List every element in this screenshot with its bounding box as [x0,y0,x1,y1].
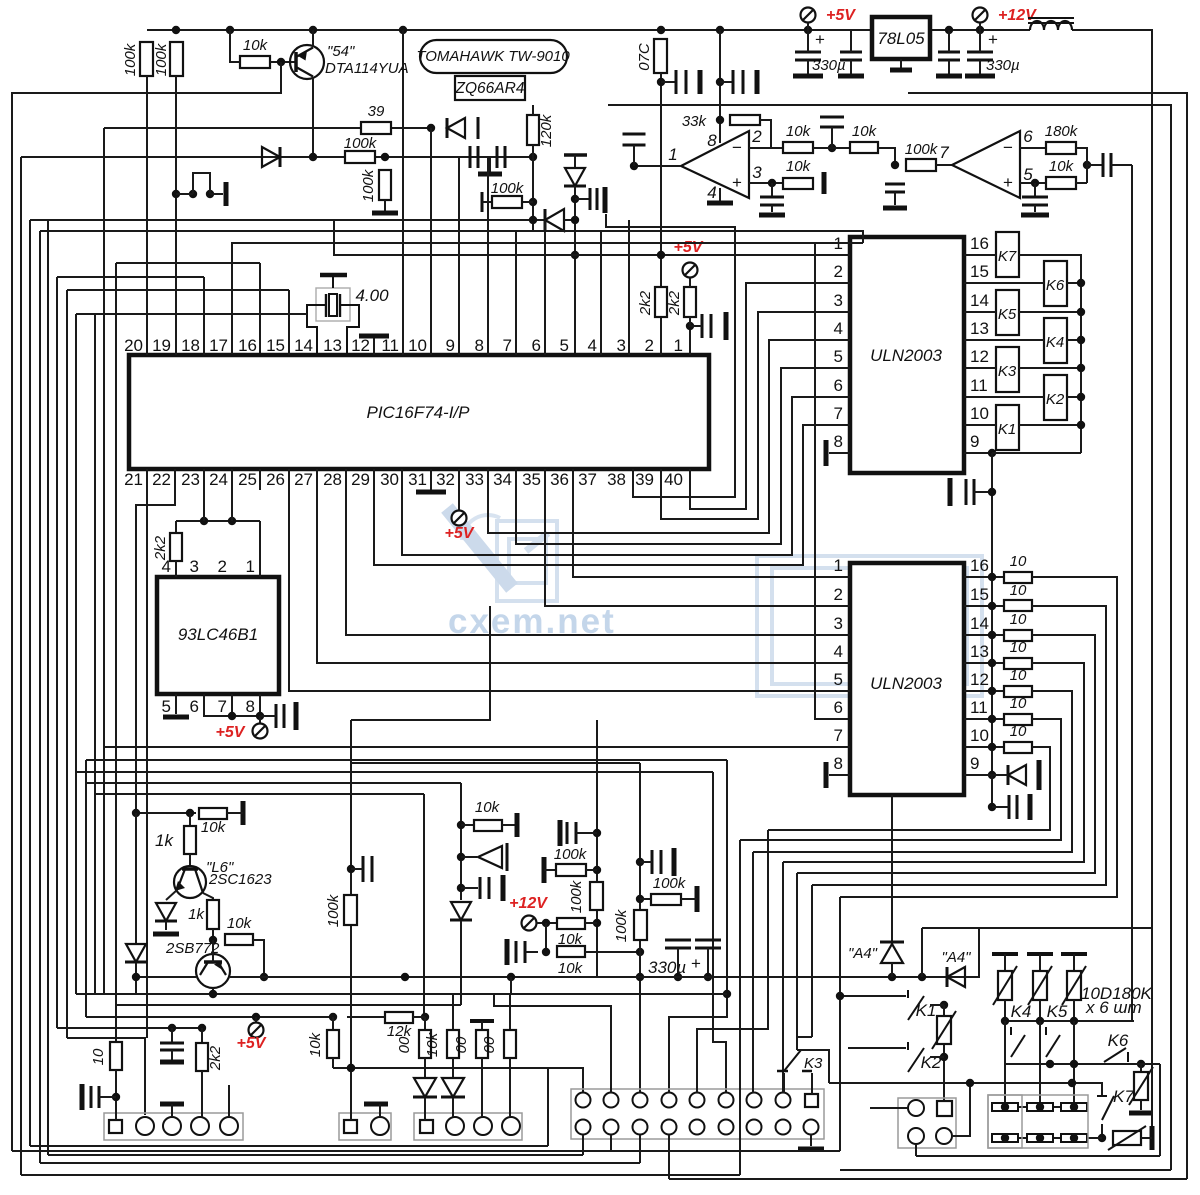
wire y763 feed [351,762,640,764]
junction [804,26,812,34]
wire 12k w2 [413,1016,425,1018]
wire y105 full [608,105,1171,1170]
wire var-bar [1141,1137,1152,1139]
relay coil K2 [1044,375,1067,420]
wire K3 left stub [783,1073,785,1093]
junction [674,973,682,981]
svg-text:10k: 10k [201,819,227,836]
diode [442,1078,464,1097]
junction [716,26,724,34]
ground [672,848,677,876]
junction [198,1024,206,1032]
junction [226,26,234,34]
wire x1152 col [1151,928,1153,1126]
wire pic24 dn [231,469,233,521]
svg-text:8: 8 [834,432,843,451]
resistor [344,895,357,925]
resistor [327,1030,339,1058]
svg-text:1k: 1k [155,831,174,850]
svg-text:K7: K7 [998,248,1017,265]
wire x922 riser [921,928,923,977]
wire p8 stub [259,694,261,716]
wire 330u down [807,30,809,52]
ground [160,1060,184,1065]
wire y521 rail [176,520,260,522]
resistor [556,864,586,876]
wire f611 [494,994,611,1093]
ground [163,715,189,720]
svg-text:10: 10 [1010,582,1027,599]
contact pad [992,1103,1018,1111]
svg-text:6: 6 [834,698,843,717]
svg-text:10: 10 [1010,723,1027,740]
wire R10 fan [768,747,1050,830]
wire cap to x1132 [1111,164,1132,166]
junction [686,322,694,330]
wire gnd stub [171,1104,173,1117]
svg-text:8: 8 [475,336,484,355]
resistor [447,1030,459,1058]
ground [1021,213,1049,218]
svg-text:1: 1 [834,556,843,575]
junction [888,973,896,981]
junction [529,153,537,161]
svg-text:27: 27 [294,470,313,489]
wire x48 up [47,220,49,1155]
svg-text:3: 3 [834,614,843,633]
junction [723,990,731,998]
svg-text:5: 5 [560,336,569,355]
capacitor [652,850,661,874]
connector pin [804,1120,819,1135]
connector pin [576,1093,591,1108]
wire y1156r [916,1155,1160,1157]
wire rail to 78L05 [851,29,872,31]
wire c dn2 [948,60,950,75]
svg-text:100k: 100k [568,879,585,913]
svg-text:11: 11 [970,698,988,717]
wire cap dn2 [850,60,852,75]
diode vertical [564,153,587,157]
ground [948,478,953,506]
wire x840 drop [839,897,841,1151]
wire U3 pin2 net [690,283,850,509]
wire pin20 stub2 [146,336,148,355]
svg-text:78L05: 78L05 [877,29,925,48]
wire pin1 dot wire [690,317,702,326]
svg-text:100k: 100k [122,42,139,76]
svg-text:34: 34 [493,470,512,489]
wire x136 col [135,813,137,945]
wire 351 to sq [350,1068,352,1120]
svg-text:+5V: +5V [237,1035,267,1052]
svg-text:+: + [691,954,701,973]
capacitor [938,52,960,60]
svg-text:00: 00 [396,1036,413,1053]
svg-text:33: 33 [465,470,484,489]
wire r453 top [452,994,454,1030]
wire 157 net [21,156,533,158]
wire x424 down [423,794,425,1017]
svg-text:23: 23 [181,470,200,489]
wire p7 stub [231,694,233,716]
varistor 10D180K [992,952,1018,956]
wire cap to 992 [974,491,992,493]
resistor [199,808,227,819]
wire y928 line [922,927,1152,929]
resistor [110,1042,122,1070]
connector pin [776,1093,791,1108]
connector pin [576,1120,591,1135]
junction [542,919,550,927]
wire pic25 stub [259,469,261,490]
wire r510 top [509,994,511,1030]
svg-text:"A4": "A4" [848,945,878,962]
svg-text:10: 10 [408,336,427,355]
svg-text:100k: 100k [344,135,378,152]
resistor [783,142,813,153]
diode [451,902,471,920]
wire pin3 cap [771,183,773,197]
diode [262,147,280,167]
junction [593,866,601,874]
ground [824,762,829,788]
connector pin [220,1117,238,1135]
svg-text:−: − [732,138,742,157]
resistor [684,287,696,317]
resistor [1004,572,1032,583]
svg-text:2: 2 [834,585,843,604]
svg-text:+: + [732,173,742,192]
svg-text:6: 6 [1023,127,1033,146]
capacitor [1022,197,1048,205]
junction [636,858,644,866]
relay coil K5 [996,290,1019,335]
junction [200,517,208,525]
wire dv [574,155,576,168]
diode [565,168,585,186]
contact pad [1027,1134,1053,1142]
junction [189,190,197,198]
ground [1129,1111,1153,1116]
connector pin [719,1120,734,1135]
svg-text:2k2: 2k2 [152,535,169,561]
junction [228,517,236,525]
wire p14-K5 [964,311,996,313]
svg-text:100k: 100k [554,846,588,863]
wire y977 l2 [230,976,405,978]
resistor [379,170,391,200]
wire 10k right [1076,182,1087,184]
wire r10 bot [115,1070,117,1120]
junction [252,1013,260,1021]
capacitor [623,134,646,145]
wire cap172 top [171,1028,173,1043]
junction [1036,1103,1044,1111]
wire pin20 line [146,76,148,336]
junction [988,573,996,581]
subtitle box [455,76,525,100]
wire pin9 v [458,157,460,355]
junction [172,26,180,34]
wire x740 dn [739,840,741,1175]
svg-text:30: 30 [380,470,399,489]
wire x511 riser [510,977,512,994]
resistor [655,287,667,317]
resistor [527,115,539,145]
wire x597 col [596,720,598,977]
wire y1163 [40,1162,640,1164]
svg-text:x 6 шт: x 6 шт [1085,998,1142,1017]
wire bandB y783 [86,782,461,784]
junction [1046,1060,1054,1068]
wire y1038w [67,1038,145,1115]
wire U4 pin7 net [104,746,850,748]
wire p16 to R [964,576,1004,578]
svg-text:9: 9 [970,754,979,773]
wire pic23 dn [203,469,205,521]
svg-text:93LC46B1: 93LC46B1 [178,625,258,644]
wire 461-10k [461,824,474,826]
svg-text:20: 20 [124,336,143,355]
svg-text:4: 4 [588,336,597,355]
wire x351 col [350,720,352,1068]
junction [457,821,465,829]
resistor [196,1043,208,1071]
wire x640 col [639,763,641,1093]
resistor [170,533,182,561]
wire y277 pin18 [57,276,204,278]
capacitor [363,856,372,882]
svg-text:K5: K5 [1047,1002,1068,1021]
svg-text:14: 14 [970,291,989,310]
wire ee p1 [259,521,261,577]
wire pad row1 wire [1005,1106,1074,1108]
svg-text:12: 12 [970,347,989,366]
wire y231 line [40,231,863,243]
ground [515,813,520,837]
junction [112,1093,120,1101]
wire pin5 gnd [1034,205,1036,212]
ground [698,70,703,94]
wire y720 wire [351,606,490,720]
svg-text:12: 12 [351,336,370,355]
svg-text:ULN2003: ULN2003 [870,674,942,693]
transistor Q2 "L6" 2SC1623 [174,866,206,898]
title oval [420,40,567,73]
wire pin down [915,1144,917,1156]
resistor [590,882,603,910]
wire K45 vert2 [1039,1021,1041,1107]
wire R15 fan [812,606,1106,885]
svg-text:13: 13 [970,642,989,661]
junction [988,631,996,639]
svg-text:10: 10 [1010,611,1027,628]
capacitor [567,822,576,844]
wire x405 col [402,30,404,355]
wire b640 [639,1135,641,1163]
wire K3 common [797,1050,829,1083]
wire cap mid gnd [487,157,490,172]
svg-text:2SC1623: 2SC1623 [208,871,272,888]
junction [1036,1134,1044,1142]
junction [529,216,537,224]
wire 10k-597b [585,922,597,924]
ground [364,1102,388,1107]
wire pin16 drop2 [259,263,261,355]
wire p9 rail [992,452,1081,454]
resistor [504,1030,516,1058]
ground [1150,1126,1155,1150]
capacitor [91,1086,99,1108]
junction [716,116,724,124]
capacitor [702,314,711,338]
junction [918,973,926,981]
junction [260,973,268,981]
junction [421,1013,429,1021]
wire pin1cap stub [633,145,635,166]
wire K4 right [1067,339,1081,341]
wire 78L05 out rail [930,29,1030,31]
resistor [651,894,681,905]
resistor [1004,658,1032,669]
wire Q1 collector [312,77,314,157]
wire p10-K1 [964,424,996,426]
svg-text:5: 5 [834,347,843,366]
junction [704,973,712,981]
contact pad [992,1134,1018,1142]
wire cap708 d [707,948,709,977]
svg-text:21: 21 [124,470,143,489]
junction [630,162,638,170]
svg-text:17: 17 [209,336,228,355]
ground [501,875,506,901]
svg-text:5: 5 [834,670,843,689]
resistor [345,151,375,163]
inductor L1 [1030,21,1072,30]
transistor Q3 2SB772 [196,954,230,988]
ground [558,820,563,846]
capacitor [840,52,862,60]
svg-text:K3: K3 [998,363,1017,380]
junction [381,153,389,161]
svg-text:3: 3 [190,557,199,576]
svg-text:100k: 100k [325,893,342,927]
wire p15 to R [964,605,1004,607]
wire r482 top [481,1021,483,1030]
wire pin6 v [544,220,546,355]
wire x116 bot [115,1005,117,1042]
svg-text:10k: 10k [307,1031,324,1057]
wire p11-K2 [964,396,1044,398]
junction [1098,1134,1106,1142]
junction [186,809,194,817]
wire cap dn [850,30,852,52]
capacitor plate + resistor 100k [481,192,484,212]
svg-text:10k: 10k [1049,158,1075,175]
wire K45 vert3 [1073,1021,1075,1107]
wire y1170 [840,1169,1171,1171]
svg-text:K5: K5 [998,306,1017,323]
junction [988,602,996,610]
svg-text:4.00: 4.00 [355,286,389,305]
wire 2k2 bot [175,561,177,577]
resistor [474,820,502,831]
wire x21 down [20,157,22,1175]
wire x548 [547,1068,549,1146]
wire 07C down [660,73,662,287]
capacitor [695,940,721,948]
ground [80,1084,85,1110]
wire 5v stub [259,716,261,724]
junction [1031,179,1039,187]
resistor [492,196,522,208]
resistor [783,178,813,189]
wire 10kv bot [332,1058,334,1068]
relay coil K6 [1044,261,1067,306]
capacitor [1103,153,1111,177]
svg-text:7: 7 [834,726,843,745]
wire r453 bot [452,1058,454,1078]
junction [988,449,996,457]
svg-text:K4: K4 [1046,334,1064,351]
connector outline gray [988,1095,1088,1148]
connector pin [633,1093,648,1108]
connector pin [662,1120,677,1135]
resistor [850,142,878,153]
svg-text:K3: K3 [804,1055,823,1072]
wire cap172 bot [171,1050,173,1060]
wire cap-546 [525,951,538,953]
contact pad [1061,1134,1087,1142]
watermark cxem.net [462,515,982,696]
crystal 4.00 MHz [316,288,350,321]
junction [593,919,601,927]
resistor [361,122,391,134]
wire K3 right stub [811,1073,813,1094]
capacitor [1009,795,1017,819]
wire b583 [582,1135,584,1155]
junction [636,948,644,956]
wire y231 line [47,230,600,232]
wire K1 common [930,1004,944,1006]
wire pic21 dn [146,469,148,1038]
wire p13-K4 [964,339,1044,341]
wire y290 pin15 [67,289,289,291]
connector pin [747,1120,762,1135]
svg-text:32: 32 [436,470,455,489]
svg-text:37: 37 [578,470,597,489]
terminal [683,263,698,278]
resistor [184,826,196,854]
wire 10kv top [332,1017,334,1030]
wire pin7 v [515,231,517,355]
junction [966,1079,974,1087]
junction [329,1013,337,1021]
wire x815 down [815,243,850,719]
resistor [730,115,760,125]
svg-text:12: 12 [970,670,989,689]
junction [1077,421,1085,429]
wire cap stub [351,868,363,870]
svg-text:00: 00 [481,1036,498,1053]
ground [724,312,729,340]
wire y220 line [30,219,545,221]
wire x992 to cap [991,775,993,807]
wire f783 [782,862,784,1093]
transistor Q1 "54" DTA114YUA [290,45,324,79]
diode [947,967,965,987]
